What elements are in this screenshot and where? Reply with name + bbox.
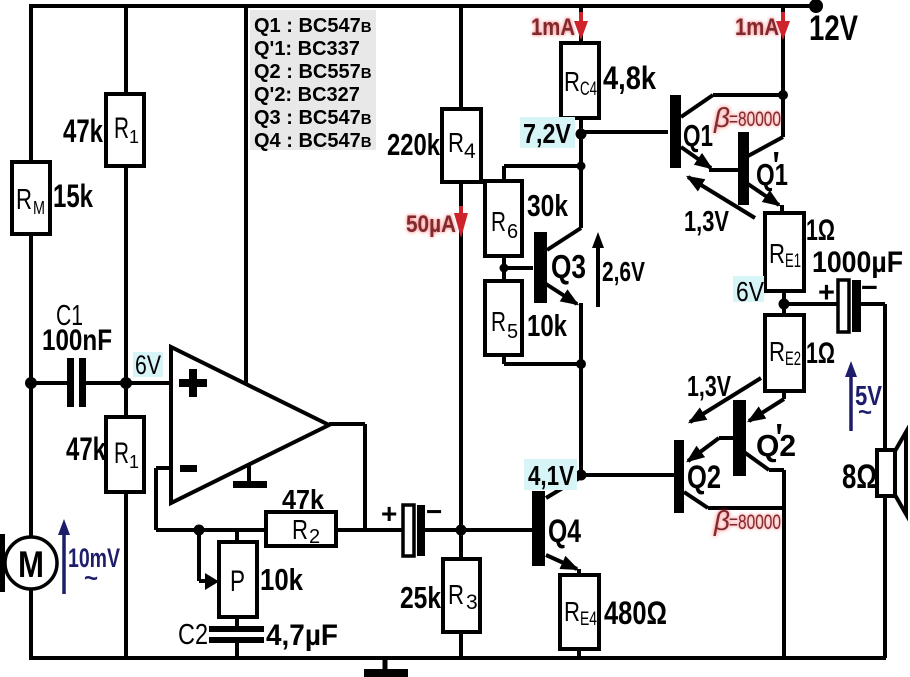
wire Q3 collector diagonal [547, 228, 581, 250]
node 12V corner dot [809, 0, 823, 13]
wire P wiper arrowhead [205, 573, 219, 590]
svg-text:R: R [292, 514, 308, 545]
svg-text:Q2: Q2 [756, 428, 796, 463]
label 1,3V (Q1 side) with arrow [684, 177, 755, 238]
label 4,8k [603, 60, 656, 96]
transistor Q4 [532, 491, 581, 566]
wire P top stub [235, 530, 239, 542]
svg-text:1: 1 [129, 127, 139, 147]
node mic/C1 junction [25, 377, 37, 389]
svg-text:2,6V: 2,6V [602, 256, 645, 287]
wire Q3 emitter diagonal [546, 284, 577, 304]
node 7,2V junction [576, 129, 587, 140]
svg-text:R: R [491, 206, 506, 237]
wire op-amp supply vertical [244, 6, 248, 384]
label 1 ohm (RE2) [806, 337, 835, 370]
svg-text:220k: 220k [387, 127, 441, 162]
svg-text:Q2 : BC557B: Q2 : BC557B [254, 61, 372, 83]
svg-text:Q3 : BC547B: Q3 : BC547B [254, 107, 372, 129]
label 100nF [42, 324, 112, 357]
svg-text:~: ~ [84, 565, 98, 592]
label 15k [53, 178, 93, 214]
node R6 branch junction [577, 162, 586, 171]
wire Q1 emitter to Q'1 base [681, 147, 738, 170]
node C3/R3/Q4 junction [456, 525, 467, 536]
resistor RC4 [561, 43, 599, 118]
label 47k (R2) [282, 484, 324, 515]
label 47k (R1 upper) [63, 113, 103, 149]
wire top supply rail 12V [31, 4, 816, 8]
svg-text:1: 1 [129, 452, 139, 472]
resistor R3 [443, 559, 480, 632]
svg-text:7,2V: 7,2V [523, 118, 571, 149]
wire Q4 collector diagonal [546, 477, 581, 498]
transistor Q'1 [738, 132, 788, 205]
transistor Q2 [674, 440, 721, 513]
svg-text:β: β [713, 102, 730, 133]
svg-text:100nF: 100nF [42, 324, 112, 357]
svg-text:1mA: 1mA [735, 14, 779, 41]
svg-text:1Ω: 1Ω [806, 337, 835, 370]
svg-text:Q1: Q1 [683, 118, 713, 153]
node +input junction [120, 377, 132, 389]
wire RC4 branch vertical [579, 6, 583, 228]
svg-text:3: 3 [466, 591, 478, 614]
svg-text:10k: 10k [527, 308, 568, 343]
label 1 ohm (RE1) [806, 214, 835, 247]
wire R4 branch vertical [459, 6, 463, 530]
label 7,2V node [520, 117, 575, 149]
label beta=80000 (Q1) [713, 102, 781, 133]
svg-text:E1: E1 [785, 251, 801, 272]
node R5 bottom junction [576, 359, 586, 369]
svg-text:=80000: =80000 [729, 108, 781, 131]
svg-text:Q4 : BC547B: Q4 : BC547B [254, 130, 372, 152]
label 1mA left arrow [531, 12, 588, 41]
wire C3 to R3 node and Q4 base [424, 528, 533, 532]
wire R3 stubs [459, 530, 463, 658]
label 25k [400, 580, 442, 615]
svg-text:30k: 30k [527, 188, 569, 223]
svg-text:25k: 25k [400, 580, 442, 615]
wire 4,1V node to Q2 base [581, 473, 674, 477]
label 10mV with arrow [58, 519, 120, 594]
wire P wiper arrow [199, 532, 206, 581]
svg-text:Q4: Q4 [548, 513, 581, 549]
label 2,6V with arrow [592, 232, 645, 307]
svg-text:50µA: 50µA [406, 211, 456, 238]
svg-text:15k: 15k [53, 178, 93, 214]
wire Q'2 collector [744, 452, 784, 470]
svg-text:R: R [769, 238, 785, 269]
node Q3 base junction [500, 264, 509, 273]
resistor R1 lower [106, 417, 144, 492]
svg-text:R: R [564, 66, 580, 97]
wire Q'1 emitter to RE1 [748, 184, 782, 213]
svg-text:12V: 12V [809, 9, 859, 48]
wire mic/+input horizontal with C1 gap [31, 381, 171, 385]
svg-text:1,3V: 1,3V [684, 206, 729, 238]
svg-text:Q1 : BC547B: Q1 : BC547B [254, 15, 372, 37]
wire left vertical rail [29, 4, 33, 658]
svg-text:1000µF: 1000µF [812, 246, 903, 279]
svg-text:R: R [114, 437, 129, 470]
wire RE2 bottom to Q'2 emitter [749, 391, 784, 421]
microphone M [0, 534, 57, 592]
svg-text:6V: 6V [135, 350, 161, 380]
svg-text:+: + [818, 277, 835, 309]
resistor R6 [485, 181, 522, 256]
wire R1 branch vertical [124, 6, 128, 658]
label C2 [178, 619, 208, 651]
label 1mA right arrow [735, 12, 790, 41]
node 6V output junction [779, 299, 790, 310]
label 47k (R1 lower) [66, 431, 106, 467]
svg-text:4,8k: 4,8k [603, 60, 656, 96]
resistor R5 [485, 281, 522, 355]
svg-text:4,1V: 4,1V [528, 460, 574, 491]
svg-text:R: R [491, 306, 506, 337]
svg-text:E2: E2 [785, 349, 801, 370]
wire right vertical (speaker branch) [883, 304, 887, 658]
capacitor C3 coupling [381, 496, 442, 556]
svg-text:P: P [230, 565, 245, 598]
label 8 ohm [842, 458, 877, 496]
transistor Q3 [534, 232, 586, 303]
label 5V with arrow [845, 361, 882, 431]
label 10k (P) [260, 562, 304, 597]
resistor R4 [442, 109, 481, 182]
svg-text:~: ~ [858, 399, 872, 426]
resistor RE4 [560, 575, 599, 649]
svg-text:R: R [564, 596, 580, 627]
svg-text:47k: 47k [282, 484, 324, 515]
svg-text:5: 5 [507, 321, 518, 343]
wire R5 bottom to emitter node [504, 355, 581, 364]
wire Q2 collector [684, 492, 784, 508]
legend transistor types [250, 10, 376, 152]
svg-text:2: 2 [309, 526, 320, 548]
transistor Q'2 [733, 400, 796, 476]
svg-text:R: R [114, 112, 129, 145]
wire op-amp feedback loop [156, 468, 266, 530]
label 30k [527, 188, 569, 223]
capacitor C1 [67, 358, 86, 407]
svg-text:4: 4 [464, 140, 476, 163]
svg-text:47k: 47k [63, 113, 103, 149]
wire Q3 emitter vertical down to 4,1V node [579, 303, 583, 477]
svg-text:+: + [381, 498, 397, 529]
svg-text:6V: 6V [736, 276, 764, 307]
svg-text:1,3V: 1,3V [687, 371, 731, 403]
capacitor 1000uF [818, 272, 878, 332]
node Q1 collector junction [778, 90, 788, 100]
svg-text:C2: C2 [178, 619, 208, 651]
svg-text:Q2: Q2 [687, 459, 721, 495]
wire RE4 bottom stub [577, 649, 581, 658]
wire Q4 emitter diagonal [546, 555, 579, 575]
label 1,3V (Q2 side) with arrow [687, 371, 761, 422]
label 6V node [133, 350, 163, 380]
resistor RM [12, 162, 50, 234]
svg-text:=80000: =80000 [729, 511, 781, 534]
svg-text:Q1: Q1 [756, 157, 788, 192]
resistor R2 [266, 512, 336, 548]
wire P bottom to C2 and ground [235, 617, 239, 658]
ground symbol (bottom rail) [364, 658, 408, 677]
label 1000uF [812, 246, 903, 279]
svg-text:1Ω: 1Ω [806, 214, 835, 247]
svg-text:C4: C4 [580, 79, 597, 100]
svg-text:1mA: 1mA [531, 14, 575, 41]
svg-text:R: R [448, 127, 464, 158]
svg-text:R: R [769, 336, 785, 367]
label 220k [387, 127, 441, 162]
label 12V [809, 9, 859, 48]
resistor R1 upper [106, 94, 144, 166]
transistor Q1 [670, 95, 713, 168]
label 50uA current arrow [406, 206, 468, 238]
wire op-amp output [329, 424, 365, 530]
svg-text:R: R [16, 184, 32, 216]
node feedback junction [194, 525, 205, 536]
wire Q'1 collector diagonal [748, 137, 783, 156]
svg-text:M: M [18, 544, 44, 585]
wire 7,2V node to Q1 base [581, 130, 668, 134]
wire RE1 bottom node [782, 291, 786, 315]
wire Q1 collector to top rail [681, 6, 783, 137]
svg-text:10k: 10k [260, 562, 304, 597]
svg-text:R: R [448, 579, 464, 610]
potentiometer P [219, 542, 257, 617]
speaker 8 ohm [877, 432, 906, 514]
wire output collectors vertical to ground rail [782, 470, 786, 658]
capacitor C2 [209, 626, 264, 643]
svg-text:−: − [426, 496, 442, 527]
label 4,7uF [266, 619, 338, 652]
wire R2 right to C3 [336, 528, 403, 532]
wire bottom ground rail [29, 656, 886, 660]
svg-text:4,7µF: 4,7µF [266, 619, 338, 652]
svg-text:β: β [713, 505, 730, 536]
wire R6-R5 junction and Q3 base [504, 256, 533, 281]
node 4,1V junction [576, 470, 587, 481]
svg-text:Q3: Q3 [551, 248, 586, 285]
label 10k (R5) [527, 308, 568, 343]
label C1 [56, 300, 83, 332]
wire node to 1000uF cap [784, 302, 885, 306]
svg-text:6: 6 [507, 221, 518, 243]
label 6V output node [733, 276, 764, 307]
label 480 ohm [604, 595, 667, 631]
svg-text:8Ω: 8Ω [842, 458, 877, 496]
ground (op-amp reference) [233, 464, 267, 488]
wire Q'2 base to Q2 emitter [688, 438, 733, 461]
wire R6 top branch [504, 166, 581, 181]
op-amp U1 [171, 347, 329, 503]
label beta=80000 (Q2) [713, 505, 781, 536]
resistor RE1 [765, 213, 804, 291]
svg-text:Q'2: BC327: Q'2: BC327 [254, 84, 360, 106]
resistor RE2 [765, 315, 804, 391]
svg-text:480Ω: 480Ω [604, 595, 667, 631]
svg-text:47k: 47k [66, 431, 106, 467]
label 4,1V node [524, 459, 577, 491]
svg-text:−: − [861, 272, 878, 304]
svg-text:E4: E4 [580, 609, 597, 630]
svg-text:M: M [33, 198, 45, 218]
svg-text:Q'1: BC337: Q'1: BC337 [254, 38, 360, 60]
